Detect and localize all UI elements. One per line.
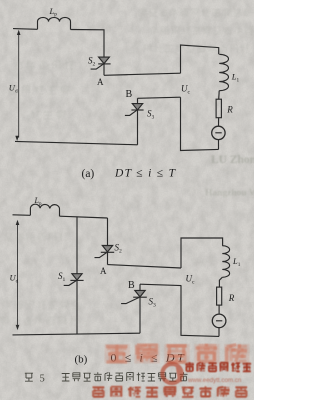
svg-text:www.eedytt.com.cn: www.eedytt.com.cn xyxy=(187,377,242,384)
svg-text:R: R xyxy=(226,105,233,115)
svg-text:DT ≤ i ≤ T: DT ≤ i ≤ T xyxy=(114,167,177,179)
svg-text:(a): (a) xyxy=(82,168,95,180)
svg-text:R: R xyxy=(228,293,235,303)
svg-text:B: B xyxy=(126,89,133,100)
svg-text:A: A xyxy=(97,77,104,87)
svg-text:Hangzhou W: Hangzhou W xyxy=(205,189,254,199)
svg-text:(b): (b) xyxy=(75,353,88,365)
svg-text:5: 5 xyxy=(40,373,45,384)
svg-text:A: A xyxy=(100,266,107,276)
svg-text:B: B xyxy=(128,280,135,291)
svg-text:LU Zhong-w: LU Zhong-w xyxy=(211,154,254,166)
